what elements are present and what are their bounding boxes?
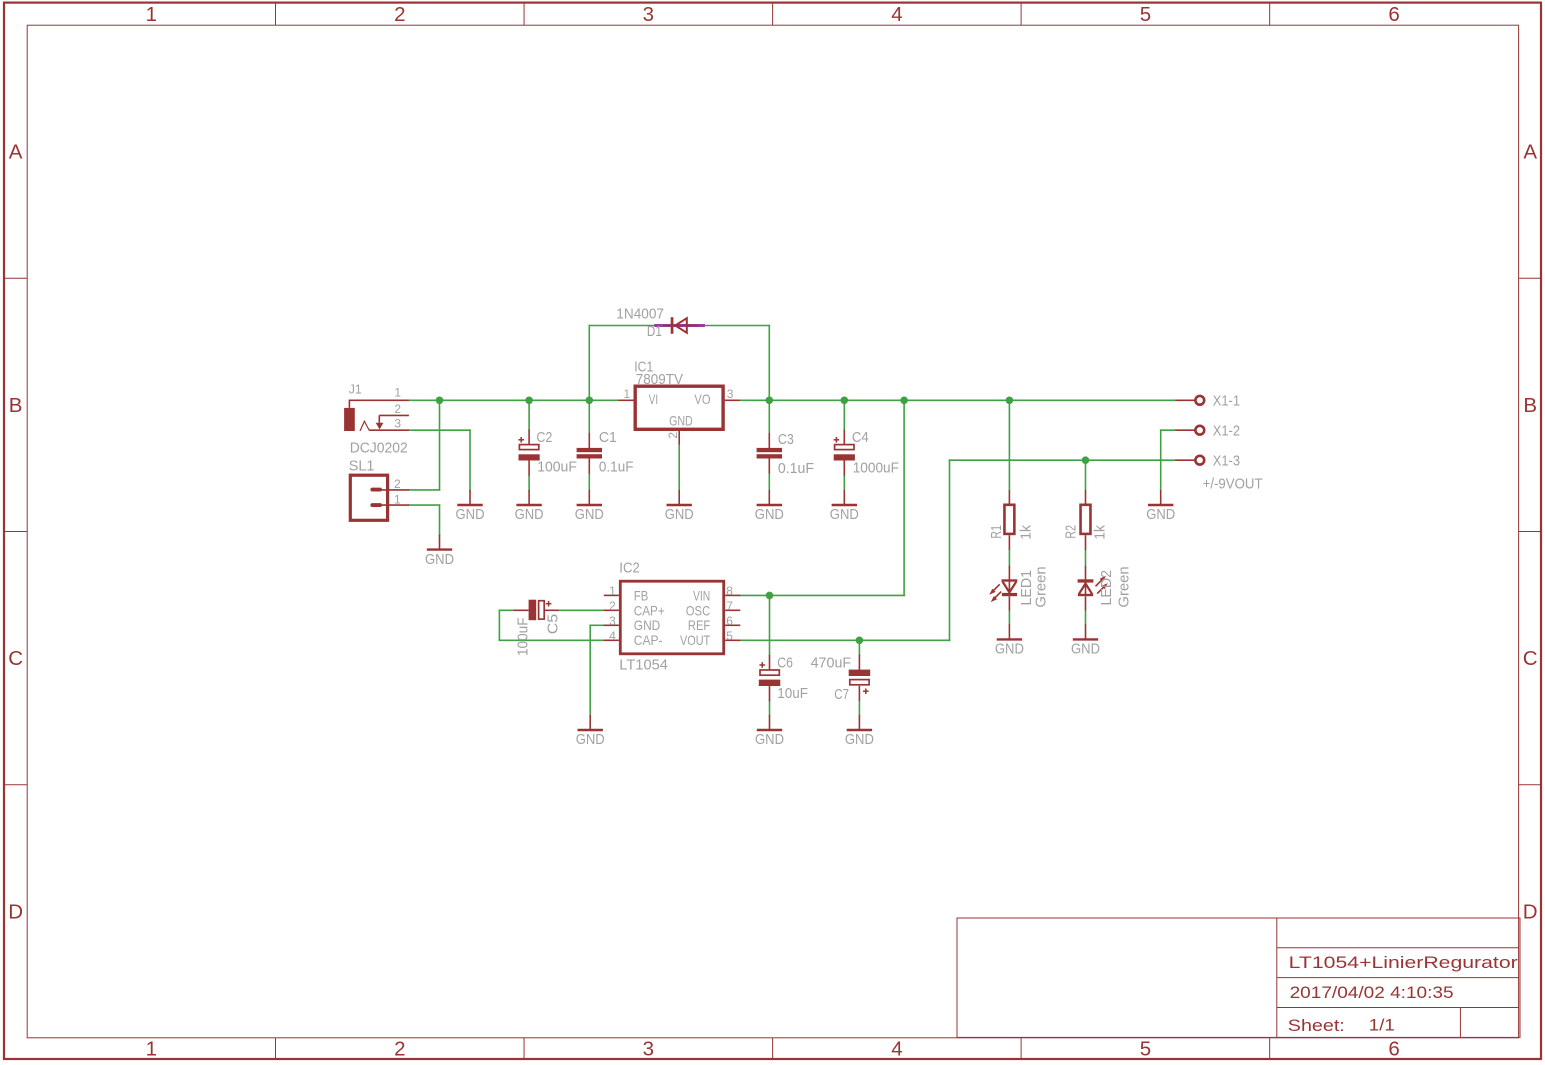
- svg-text:2: 2: [394, 477, 401, 491]
- svg-text:LT1054+LinierRegurator: LT1054+LinierRegurator: [1289, 953, 1518, 972]
- svg-text:8: 8: [726, 584, 733, 598]
- svg-text:1k: 1k: [1017, 525, 1034, 540]
- frame row labels: [8, 141, 1538, 924]
- ground C1: [575, 490, 604, 523]
- svg-text:3: 3: [643, 3, 654, 26]
- svg-text:4: 4: [609, 629, 616, 643]
- title block: [957, 918, 1520, 1037]
- svg-text:GND: GND: [634, 617, 661, 633]
- svg-text:C6: C6: [777, 655, 793, 672]
- svg-text:IC2: IC2: [619, 560, 640, 577]
- svg-text:D: D: [8, 900, 23, 923]
- svg-text:2: 2: [394, 1038, 405, 1061]
- svg-text:GND: GND: [669, 413, 693, 429]
- capacitor C4: [834, 437, 855, 461]
- regulator IC1 7809TV: [618, 358, 740, 444]
- wire junctions: [436, 397, 1090, 645]
- svg-text:3: 3: [609, 614, 616, 628]
- svg-text:6: 6: [726, 614, 733, 628]
- svg-text:FB: FB: [634, 588, 649, 604]
- svg-text:B: B: [9, 394, 23, 417]
- ground IC1: [665, 490, 694, 523]
- svg-text:2: 2: [666, 432, 680, 439]
- frame row dividers: [4, 278, 1541, 785]
- svg-text:1k: 1k: [1092, 525, 1109, 540]
- svg-text:GND: GND: [995, 641, 1024, 658]
- svg-text:470uF: 470uF: [811, 655, 852, 672]
- svg-text:2017/04/02 4:10:35: 2017/04/02 4:10:35: [1290, 983, 1454, 1002]
- svg-text:5: 5: [726, 629, 733, 643]
- svg-text:Green: Green: [1032, 566, 1049, 607]
- resistor R1 1k: [988, 490, 1034, 550]
- svg-text:GND: GND: [665, 506, 694, 523]
- svg-text:7: 7: [726, 599, 733, 613]
- svg-text:VO: VO: [694, 391, 710, 407]
- capacitor C1: [577, 448, 602, 459]
- svg-text:100uF: 100uF: [537, 459, 577, 476]
- ground C4: [830, 490, 859, 523]
- resistor R2 1k: [1063, 490, 1109, 550]
- svg-text:GND: GND: [1071, 641, 1100, 658]
- ground LED2: [1071, 624, 1100, 657]
- capacitor C6 10uF: [759, 655, 808, 702]
- svg-text:X1-1: X1-1: [1213, 393, 1240, 410]
- node X1-3: [1175, 453, 1240, 470]
- svg-text:C: C: [8, 647, 23, 670]
- LED2 Green: [1078, 566, 1133, 611]
- svg-text:A: A: [9, 141, 23, 164]
- node X1-2: [1175, 423, 1240, 440]
- svg-text:3: 3: [394, 417, 401, 431]
- svg-text:1: 1: [624, 387, 631, 401]
- svg-text:3: 3: [643, 1038, 654, 1061]
- svg-text:R2: R2: [1063, 525, 1080, 539]
- svg-text:GND: GND: [575, 506, 604, 523]
- wire segments (nets): [409, 326, 1176, 716]
- svg-text:LT1054: LT1054: [619, 657, 668, 674]
- svg-text:C7: C7: [834, 686, 849, 703]
- ground C3: [755, 490, 784, 523]
- capacitor C5 100uF: [514, 600, 562, 656]
- svg-text:1: 1: [394, 385, 401, 399]
- LED1 Green: [989, 566, 1049, 611]
- svg-text:GND: GND: [845, 731, 874, 748]
- svg-text:C1: C1: [599, 429, 617, 446]
- svg-text:C4: C4: [852, 429, 869, 446]
- svg-text:2: 2: [394, 402, 401, 416]
- capacitor C2 lead: [528, 430, 530, 476]
- svg-text:LED2: LED2: [1098, 570, 1115, 606]
- IC U2 LT1054: [604, 560, 741, 674]
- svg-text:GND: GND: [515, 506, 544, 523]
- capacitor C7 470uF: [811, 655, 871, 703]
- capacitor C2: [518, 437, 539, 461]
- svg-text:A: A: [1523, 141, 1537, 164]
- svg-text:1000uF: 1000uF: [853, 459, 899, 476]
- svg-text:Green: Green: [1115, 566, 1132, 607]
- ground C6: [755, 715, 784, 748]
- capacitor C1 lead: [588, 433, 590, 474]
- svg-text:C2: C2: [536, 429, 552, 446]
- svg-text:CAP-: CAP-: [634, 632, 663, 648]
- svg-text:C5: C5: [544, 614, 561, 635]
- svg-text:0.1uF: 0.1uF: [599, 459, 634, 476]
- ground IC2: [576, 715, 605, 748]
- svg-text:5: 5: [1140, 3, 1151, 26]
- svg-text:1: 1: [146, 3, 157, 26]
- svg-text:C: C: [1523, 647, 1538, 670]
- svg-text:1N4007: 1N4007: [616, 305, 664, 322]
- svg-text:J1: J1: [349, 381, 362, 396]
- svg-text:5: 5: [1140, 1038, 1151, 1061]
- svg-text:VIN: VIN: [693, 588, 710, 604]
- svg-text:3: 3: [727, 387, 734, 401]
- svg-text:GND: GND: [830, 506, 859, 523]
- svg-text:2: 2: [609, 599, 616, 613]
- svg-text:GND: GND: [1146, 506, 1175, 523]
- svg-text:6: 6: [1388, 3, 1399, 26]
- svg-text:GND: GND: [755, 731, 784, 748]
- ground X1-2: [1146, 490, 1175, 523]
- ground C7: [845, 715, 874, 748]
- connector J1 DCJ0202: [344, 381, 409, 456]
- svg-text:REF: REF: [688, 617, 710, 633]
- capacitor C3: [757, 448, 782, 459]
- capacitor C4 lead: [843, 430, 845, 476]
- svg-text:100uF: 100uF: [515, 618, 532, 657]
- connector SL1: [349, 457, 409, 520]
- diode D1 1N4007: [616, 305, 705, 340]
- svg-text:2: 2: [394, 3, 405, 26]
- node X1-1: [1175, 393, 1240, 410]
- svg-text:+/-9VOUT: +/-9VOUT: [1203, 476, 1263, 493]
- svg-text:7809TV: 7809TV: [636, 371, 683, 388]
- svg-text:1: 1: [394, 492, 401, 506]
- svg-text:GND: GND: [576, 731, 605, 748]
- svg-text:4: 4: [891, 1038, 902, 1061]
- svg-text:X1-3: X1-3: [1213, 453, 1240, 470]
- svg-text:DCJ0202: DCJ0202: [350, 440, 408, 457]
- svg-text:1: 1: [146, 1038, 157, 1061]
- svg-text:D: D: [1523, 900, 1538, 923]
- ground C2: [515, 490, 544, 523]
- svg-text:4: 4: [891, 3, 902, 26]
- frame column dividers: [276, 3, 1270, 1059]
- svg-text:VOUT: VOUT: [680, 632, 711, 648]
- svg-text:0.1uF: 0.1uF: [778, 460, 814, 477]
- ground LED1: [995, 624, 1024, 657]
- svg-text:6: 6: [1388, 1038, 1399, 1061]
- ground SL1-1: [425, 535, 454, 568]
- svg-text:VI: VI: [649, 391, 658, 407]
- svg-text:GND: GND: [425, 551, 454, 568]
- svg-text:B: B: [1523, 394, 1537, 417]
- svg-text:1: 1: [609, 584, 616, 598]
- svg-text:GND: GND: [456, 506, 485, 523]
- svg-text:R1: R1: [988, 525, 1005, 539]
- svg-text:D1: D1: [647, 323, 662, 340]
- svg-text:X1-2: X1-2: [1213, 423, 1240, 440]
- svg-text:10uF: 10uF: [777, 685, 808, 702]
- capacitor C3 lead: [768, 433, 770, 474]
- svg-text:1/1: 1/1: [1369, 1016, 1395, 1035]
- svg-text:SL1: SL1: [349, 457, 375, 474]
- ground J1-3: [456, 490, 485, 523]
- svg-text:C3: C3: [778, 431, 794, 448]
- svg-text:Sheet:: Sheet:: [1288, 1016, 1345, 1035]
- svg-text:GND: GND: [755, 506, 784, 523]
